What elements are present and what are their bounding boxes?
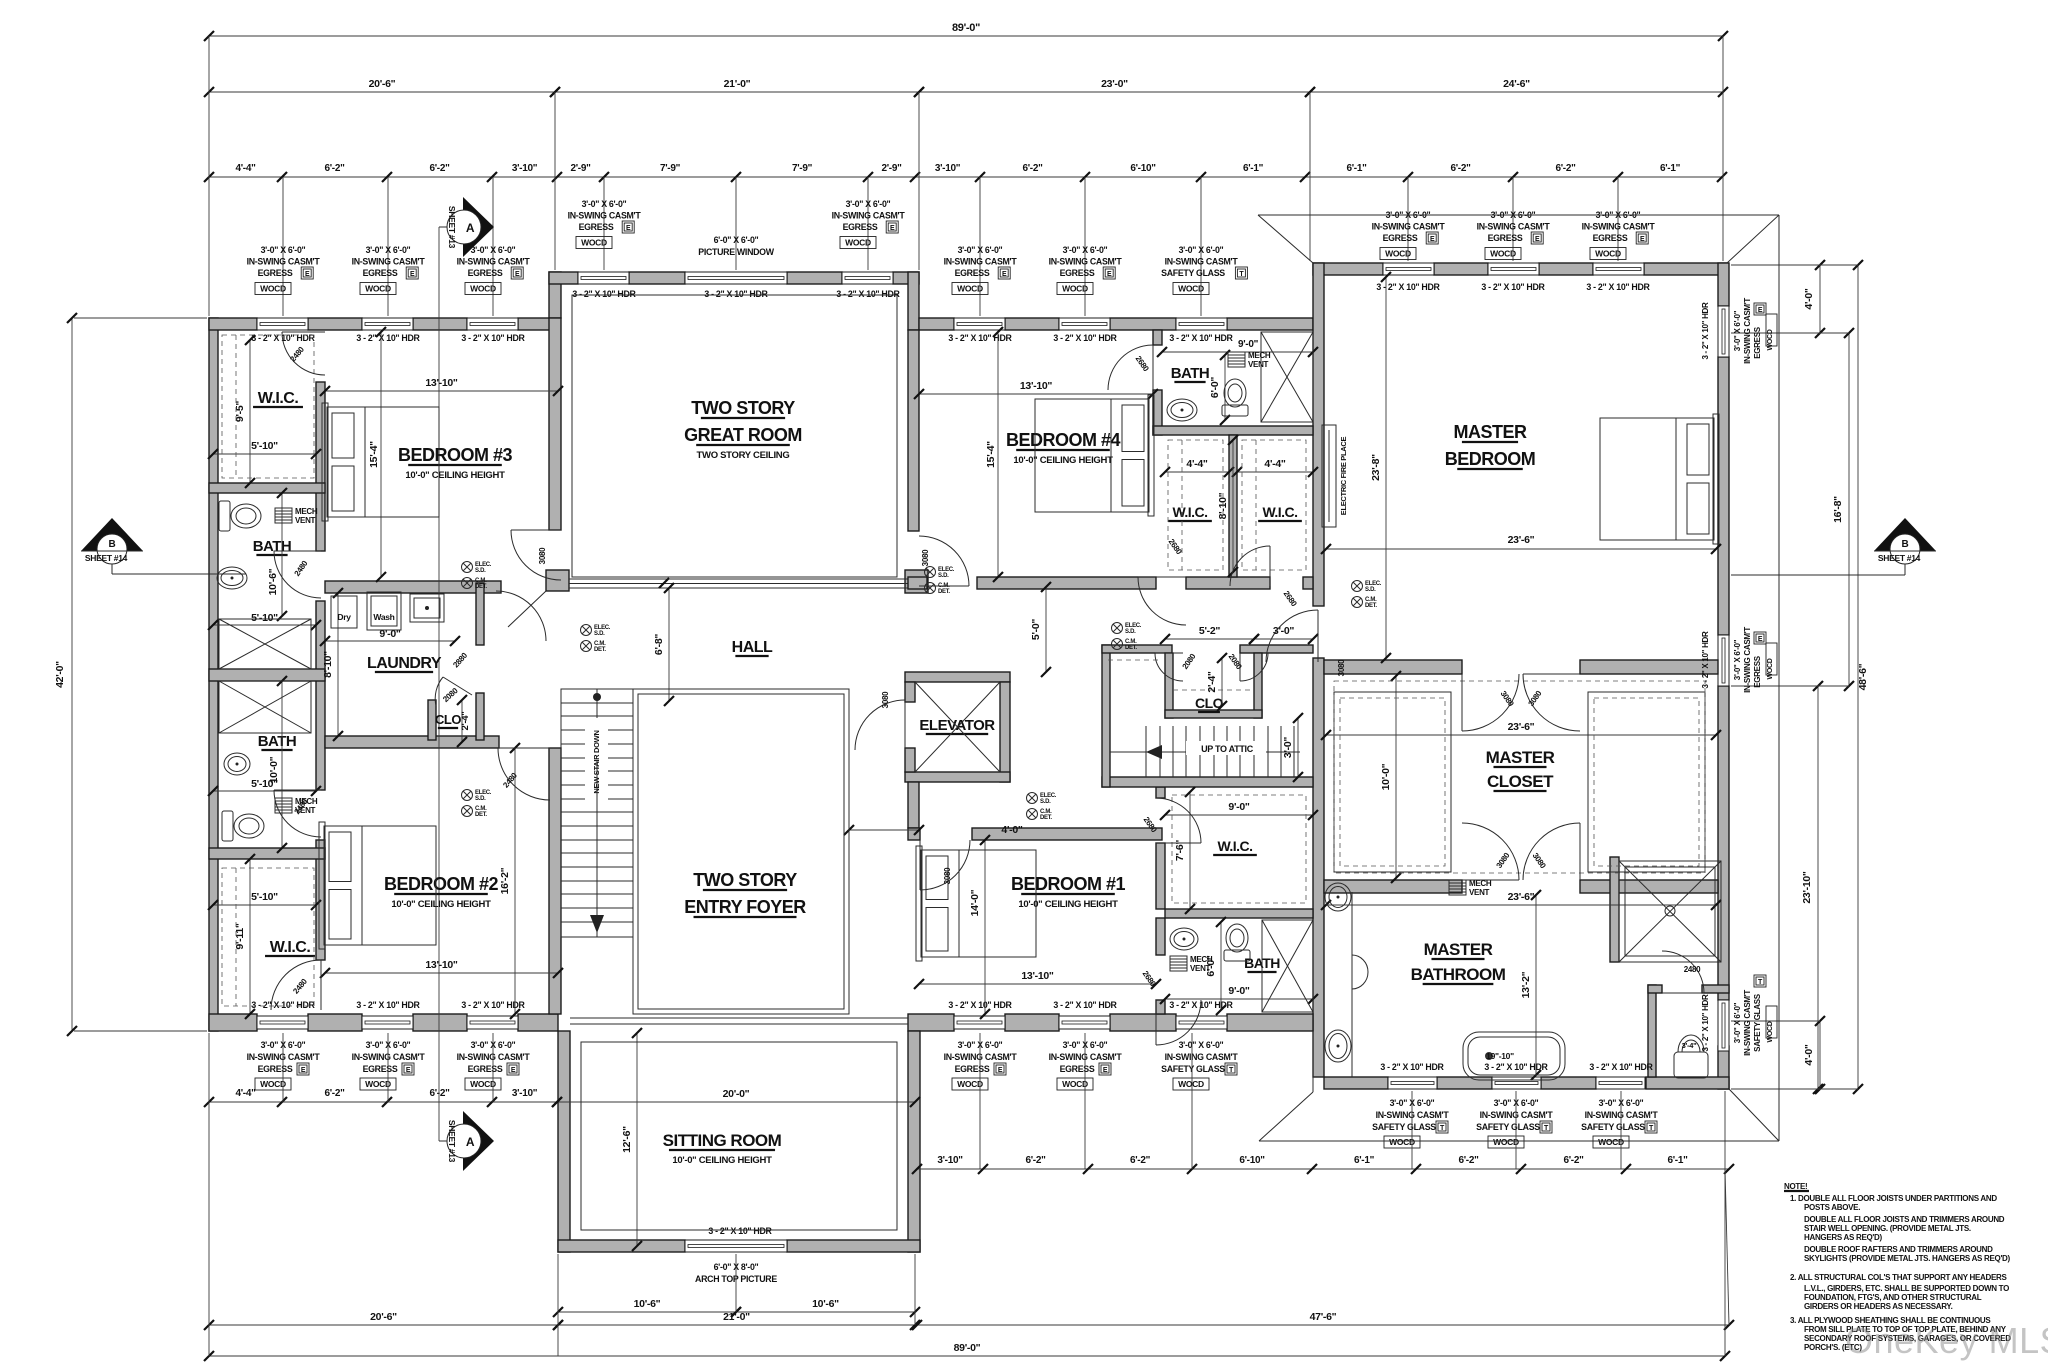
svg-text:EGRESS: EGRESS (1593, 233, 1628, 243)
dim right 23'-10 (1817, 686, 1819, 1089)
toilet bedroom1 bath (1224, 950, 1250, 961)
svg-text:47'-6": 47'-6" (1310, 1311, 1337, 1323)
extension lines bottom (282, 1033, 284, 1102)
svg-text:DET.: DET. (938, 589, 950, 595)
svg-text:SAFETY GLASS: SAFETY GLASS (1161, 1064, 1225, 1074)
closet shelving WIC1 dashed (222, 335, 314, 478)
svg-text:IN-SWING CASM'T: IN-SWING CASM'T (1477, 222, 1551, 232)
wall between bathrooms showers (209, 669, 325, 681)
svg-text:WOCD: WOCD (260, 284, 286, 294)
closet shelving bedroom1 WIC dashed (1172, 795, 1306, 903)
dim bath2 10'-0 (281, 681, 283, 848)
svg-text:3'-0" X 6'-0": 3'-0" X 6'-0" (1733, 639, 1742, 680)
mech vent bedroom1 bath (1170, 956, 1187, 971)
svg-text:6'-1": 6'-1" (1354, 1155, 1375, 1166)
svg-text:3080: 3080 (1337, 659, 1346, 676)
svg-text:IN-SWING CASM'T: IN-SWING CASM'T (1165, 1052, 1239, 1062)
svg-text:MASTER: MASTER (1486, 748, 1555, 767)
svg-text:NOTE!: NOTE! (1784, 1182, 1807, 1191)
door bedroom4 WIC right 2680 (1230, 546, 1270, 586)
svg-text:23'-0": 23'-0" (1101, 78, 1128, 90)
svg-text:3'-0" X 6'-0": 3'-0" X 6'-0" (366, 245, 411, 255)
svg-text:OneKey MLS: OneKey MLS (1845, 1320, 2048, 1361)
svg-text:16'-8": 16'-8" (1832, 496, 1844, 523)
mech vent master bath (1449, 880, 1466, 895)
svg-text:20'-0": 20'-0" (723, 1088, 750, 1100)
svg-text:SAFETY GLASS: SAFETY GLASS (1372, 1122, 1436, 1132)
svg-text:6'-10": 6'-10" (1130, 163, 1156, 174)
door bedroom1 WIC 2680 (1156, 798, 1201, 843)
svg-text:5'-10": 5'-10" (251, 612, 278, 624)
svg-text:19"-10": 19"-10" (1486, 1051, 1514, 1061)
svg-text:15'-4": 15'-4" (985, 441, 997, 468)
svg-text:2'-9": 2'-9" (570, 163, 591, 174)
svg-text:3 - 2" X 10" HDR: 3 - 2" X 10" HDR (1484, 1062, 1548, 1072)
dim master bedroom 23'-6 (1326, 548, 1716, 550)
svg-text:SITTING ROOM: SITTING ROOM (663, 1131, 782, 1150)
svg-text:3 - 2" X 10" HDR: 3 - 2" X 10" HDR (572, 289, 636, 299)
wall below bath2 (209, 848, 325, 859)
svg-text:3'-0" X 6'-0": 3'-0" X 6'-0" (1179, 1040, 1224, 1050)
master shower (1619, 861, 1721, 962)
svg-text:VENT: VENT (295, 516, 316, 525)
svg-text:6'-1": 6'-1" (1660, 163, 1681, 174)
stairs up to attic (1145, 726, 1147, 777)
svg-text:10'-0" CEILING HEIGHT: 10'-0" CEILING HEIGHT (672, 1155, 772, 1166)
svg-text:3'-0" X 6'-0": 3'-0" X 6'-0" (1179, 245, 1224, 255)
svg-text:B: B (1902, 539, 1909, 550)
extension lines top windows (282, 177, 284, 316)
bed bedroom4 (1035, 399, 1149, 512)
svg-text:9'-0": 9'-0" (1228, 985, 1249, 997)
door bedroom4 bath 2680 (1108, 345, 1153, 390)
svg-text:DET.: DET. (475, 584, 487, 590)
door bath1 2480 (274, 551, 321, 598)
svg-text:EGRESS: EGRESS (468, 268, 503, 278)
door CLO laundry 2080 (443, 677, 472, 695)
svg-text:3'-0" X 6'-0": 3'-0" X 6'-0" (1063, 245, 1108, 255)
svg-text:6'-2": 6'-2" (429, 1088, 450, 1099)
svg-text:HALL: HALL (732, 639, 773, 656)
svg-text:WOCD: WOCD (1178, 1079, 1204, 1089)
svg-text:5'-10": 5'-10" (251, 440, 278, 452)
svg-text:WOCD: WOCD (1062, 1079, 1088, 1089)
svg-text:EGRESS: EGRESS (1488, 233, 1523, 243)
dim b1 WIC 9'-0 (1165, 814, 1313, 816)
dim attic 3'-0 (1297, 718, 1299, 777)
svg-text:EGRESS: EGRESS (258, 1064, 293, 1074)
door bedroom4 WIC left 2680 (1138, 577, 1186, 625)
svg-text:WOCD: WOCD (1389, 1137, 1415, 1147)
dim left 42'-0 (71, 318, 73, 1031)
svg-text:DET.: DET. (1040, 815, 1052, 821)
closet shelving bedroom4 WICs dashed (1168, 440, 1223, 570)
svg-text:13'-10": 13'-10" (1020, 380, 1053, 392)
svg-text:TWO STORY: TWO STORY (691, 398, 795, 418)
wall master left (1313, 263, 1324, 606)
wall bedroom1 east WIC west (1156, 787, 1165, 798)
svg-text:CLO: CLO (435, 712, 461, 727)
svg-text:IN-SWING CASM'T: IN-SWING CASM'T (1049, 257, 1123, 267)
svg-text:E: E (1758, 636, 1763, 643)
svg-text:SAFETY GLASS: SAFETY GLASS (1753, 993, 1762, 1052)
section line A-A (438, 227, 440, 1141)
dim bedroom1 13'-10 (919, 983, 1156, 985)
svg-text:3 - 2" X 10" HDR: 3 - 2" X 10" HDR (948, 333, 1012, 343)
door master closet south double 3080 (1462, 823, 1519, 880)
sink bedroom1 bath (1170, 928, 1198, 950)
svg-text:23'-10": 23'-10" (1801, 871, 1813, 904)
svg-text:WOCD: WOCD (1767, 329, 1774, 350)
svg-text:W.I.C.: W.I.C. (1172, 504, 1207, 520)
sink bath2 (224, 753, 250, 775)
svg-text:15'-4": 15'-4" (368, 441, 380, 468)
svg-text:3 - 2" X 10" HDR: 3 - 2" X 10" HDR (1053, 333, 1117, 343)
svg-text:10'-0" CEILING HEIGHT: 10'-0" CEILING HEIGHT (1013, 455, 1113, 466)
svg-text:TWO STORY CEILING: TWO STORY CEILING (697, 450, 790, 461)
door bedroom1 bath 2680 (1156, 1000, 1201, 1045)
dim top 89'-0 (209, 35, 1723, 37)
svg-text:10'-6": 10'-6" (634, 1298, 661, 1310)
smoke detector bedroom2 (462, 790, 473, 801)
svg-text:DET.: DET. (1125, 645, 1137, 651)
closet hall CLO dashed (1173, 689, 1254, 691)
smoke detector hall attic (1112, 623, 1123, 634)
svg-text:E: E (1107, 271, 1112, 278)
svg-text:S.D.: S.D. (1040, 799, 1051, 805)
closet shelving WIC2 dashed (222, 868, 314, 1006)
svg-text:GREAT ROOM: GREAT ROOM (684, 425, 802, 445)
smoke detector master bedroom (1352, 581, 1363, 592)
door master closet north double 3080 (1462, 674, 1519, 731)
svg-text:3 - 2" X 10" HDR: 3 - 2" X 10" HDR (1481, 282, 1545, 292)
svg-text:WOCD: WOCD (470, 284, 496, 294)
dim b1 WIC 7'-6 (1189, 792, 1191, 909)
dim clo 2'-4 (1221, 658, 1223, 706)
mech vent bath2 (275, 798, 292, 813)
toilet bath1 (219, 501, 230, 531)
svg-text:SHEET #14: SHEET #14 (85, 553, 128, 563)
svg-text:24'-6": 24'-6" (1503, 78, 1530, 90)
svg-text:E: E (511, 1067, 516, 1074)
shower bedroom1 bath (1262, 920, 1313, 1012)
open to below entry foyer outline (633, 689, 849, 1014)
svg-text:2'-4": 2'-4" (1206, 671, 1218, 692)
svg-text:4'-0": 4'-0" (1803, 288, 1815, 309)
svg-text:E: E (410, 271, 415, 278)
wall sitting room left (558, 1031, 570, 1252)
svg-text:3'-0" X 6'-0": 3'-0" X 6'-0" (261, 245, 306, 255)
svg-text:SKYLIGHTS (PROVIDE METAL JTS.: SKYLIGHTS (PROVIDE METAL JTS. HANGERS AS… (1804, 1254, 2011, 1263)
svg-text:S.D.: S.D. (594, 631, 605, 637)
svg-text:IN-SWING CASM'T: IN-SWING CASM'T (352, 257, 426, 267)
svg-text:16'-2": 16'-2" (499, 867, 511, 894)
svg-text:3 - 2" X 10" HDR: 3 - 2" X 10" HDR (356, 1000, 420, 1010)
door bedroom2 2480 (498, 748, 550, 800)
svg-text:WOCD: WOCD (1062, 284, 1088, 294)
svg-text:10'-0" CEILING HEIGHT: 10'-0" CEILING HEIGHT (1018, 899, 1118, 910)
svg-text:S.D.: S.D. (1365, 587, 1376, 593)
svg-text:14'-0": 14'-0" (969, 889, 981, 916)
dim bottom 89'-0 (209, 1355, 1725, 1357)
inner trim great room (572, 295, 897, 577)
svg-text:9'-0": 9'-0" (1238, 339, 1259, 350)
dim shower 5'-10 (213, 624, 316, 626)
dim laundry 8'-10 (337, 593, 339, 736)
svg-text:6'-1": 6'-1" (1667, 1155, 1688, 1166)
svg-text:23'-6": 23'-6" (1508, 721, 1535, 733)
dim sitting room bottom 10'-6 10'-6 (558, 1311, 736, 1313)
svg-text:20'-6": 20'-6" (369, 78, 396, 90)
fireplace master (1322, 425, 1336, 527)
svg-text:UP TO ATTIC: UP TO ATTIC (1201, 744, 1254, 754)
dim WIC2 9'-11 (249, 859, 251, 1014)
smoke detector great room (925, 567, 936, 578)
svg-text:WOCD: WOCD (1595, 249, 1621, 259)
svg-text:2'-4": 2'-4" (460, 712, 471, 731)
svg-text:BEDROOM #1: BEDROOM #1 (1011, 874, 1126, 894)
open edge great room to hall with pillars (546, 570, 569, 591)
svg-text:7'-9": 7'-9" (792, 163, 813, 174)
svg-text:IN-SWING CASM'T: IN-SWING CASM'T (1743, 627, 1752, 693)
svg-text:E: E (1430, 236, 1435, 243)
svg-text:IN-SWING CASM'T: IN-SWING CASM'T (247, 257, 321, 267)
svg-text:6'-2": 6'-2" (1022, 163, 1043, 174)
svg-text:2. ALL STRUCTURAL COL'S THAT: 2. ALL STRUCTURAL COL'S THAT SUPPORT ANY… (1790, 1273, 2008, 1282)
svg-text:6'-2": 6'-2" (1130, 1155, 1151, 1166)
svg-text:3'-10": 3'-10" (512, 1088, 538, 1099)
dim bath2 5'-10 (213, 790, 316, 792)
section marker B right (1874, 518, 1936, 551)
dim bottom-left chain (209, 1101, 557, 1103)
wall attic stair west (1102, 645, 1110, 787)
svg-text:A: A (466, 1135, 475, 1149)
dim right 16'-8 (1848, 333, 1850, 686)
section marker A top (463, 197, 494, 257)
svg-text:W.I.C.: W.I.C. (270, 939, 311, 956)
svg-text:IN-SWING CASM'T: IN-SWING CASM'T (1372, 222, 1446, 232)
svg-text:4'-4": 4'-4" (1264, 458, 1285, 470)
dim bedroom4 13'-10 (919, 393, 1153, 395)
svg-text:IN-SWING CASM'T: IN-SWING CASM'T (944, 257, 1018, 267)
dim top second chain (209, 91, 555, 93)
svg-text:VENT: VENT (1190, 964, 1211, 973)
svg-text:DET.: DET. (1365, 603, 1377, 609)
wall exterior bottom-left with windows (209, 1014, 257, 1031)
svg-text:A: A (466, 221, 475, 235)
wall exterior bedroom4 top with windows (908, 272, 919, 330)
svg-text:3080: 3080 (538, 547, 547, 564)
svg-text:S.D.: S.D. (475, 796, 486, 802)
svg-text:3'-0" X 6'-0": 3'-0" X 6'-0" (958, 245, 1003, 255)
svg-text:WOCD: WOCD (1767, 658, 1774, 679)
wall left closets column east (316, 382, 325, 551)
svg-text:6'-1": 6'-1" (1243, 163, 1264, 174)
svg-text:2480: 2480 (1684, 965, 1701, 974)
svg-text:9'-0": 9'-0" (1228, 801, 1249, 813)
svg-text:23'-6": 23'-6" (1508, 534, 1535, 546)
svg-text:13'-2": 13'-2" (1520, 971, 1532, 998)
svg-text:6'-2": 6'-2" (324, 1088, 345, 1099)
svg-text:S.D.: S.D. (1125, 629, 1136, 635)
svg-text:FOUNDATION, FTG'S, AND OTHER S: FOUNDATION, FTG'S, AND OTHER STRUCTURAL (1804, 1293, 1982, 1302)
svg-text:ELECTRIC FIRE PLACE: ELECTRIC FIRE PLACE (1339, 436, 1348, 515)
wall bedroom4 WICs south (1186, 577, 1270, 589)
svg-text:IN-SWING CASM'T: IN-SWING CASM'T (1585, 1110, 1659, 1120)
svg-text:3 - 2" X 10" HDR: 3 - 2" X 10" HDR (948, 1000, 1012, 1010)
svg-text:IN-SWING CASM'T: IN-SWING CASM'T (1480, 1110, 1554, 1120)
dim sitting room 20'-0 (557, 1101, 915, 1103)
svg-text:GIRDERS OR HEADERS AS NECESSAR: GIRDERS OR HEADERS AS NECESSARY. (1804, 1302, 1953, 1311)
dim CLO 2'-4 (461, 700, 463, 742)
svg-text:W.I.C.: W.I.C. (258, 390, 299, 407)
svg-text:3'-0" X 6'-0": 3'-0" X 6'-0" (471, 245, 516, 255)
svg-text:13'-10": 13'-10" (425, 377, 458, 389)
wall laundry south bedroom2 north (325, 736, 499, 748)
svg-text:10'-0" CEILING HEIGHT: 10'-0" CEILING HEIGHT (391, 899, 491, 910)
wall master shower stub (1610, 857, 1619, 962)
svg-text:3 - 2" X 10" HDR: 3 - 2" X 10" HDR (836, 289, 900, 299)
svg-text:CLOSET: CLOSET (1487, 772, 1554, 791)
wall attic stair south (1102, 777, 1313, 787)
svg-text:S.D.: S.D. (938, 573, 949, 579)
svg-text:1. DOUBLE ALL FLOOR JOISTS UN: 1. DOUBLE ALL FLOOR JOISTS UNDER PARTITI… (1790, 1194, 1997, 1203)
svg-text:3'-10": 3'-10" (935, 163, 961, 174)
svg-text:3 - 2" X 10" HDR: 3 - 2" X 10" HDR (1701, 631, 1710, 689)
svg-text:EGRESS: EGRESS (955, 268, 990, 278)
door hall CLO double 2080 (1155, 653, 1183, 681)
stairs entry foyer (561, 689, 633, 937)
svg-text:3'-10": 3'-10" (512, 163, 538, 174)
dim bath1 10'-6 (281, 493, 283, 616)
dim right 48'-6 (1857, 265, 1859, 1089)
svg-text:WOCD: WOCD (470, 1079, 496, 1089)
wall exterior bottom bedroom1 with windows (908, 1014, 954, 1031)
svg-text:IN-SWING CASM'T: IN-SWING CASM'T (247, 1052, 321, 1062)
svg-text:48'-6": 48'-6" (1857, 663, 1869, 690)
wall bedroom4 WIC divider (1229, 435, 1237, 577)
svg-text:6'-8": 6'-8" (653, 634, 665, 655)
svg-text:EGRESS: EGRESS (1753, 326, 1762, 359)
svg-text:PICTURE WINDOW: PICTURE WINDOW (698, 247, 774, 257)
svg-text:IN-SWING CASM'T: IN-SWING CASM'T (352, 1052, 426, 1062)
svg-text:WOCD: WOCD (365, 1079, 391, 1089)
dim top third chain (209, 176, 1722, 178)
svg-text:IN-SWING CASM'T: IN-SWING CASM'T (568, 211, 642, 221)
section marker A bottom (463, 1111, 494, 1171)
inner trim sitting room (581, 1042, 897, 1230)
svg-text:E: E (301, 1067, 306, 1074)
svg-text:MASTER: MASTER (1424, 940, 1493, 959)
dim bedroom4 bath 6'-0 (1224, 355, 1226, 420)
shower bath1 (219, 619, 311, 669)
svg-text:5'-10": 5'-10" (251, 778, 278, 790)
svg-text:3 - 2" X 10" HDR: 3 - 2" X 10" HDR (1586, 282, 1650, 292)
svg-text:5'-10": 5'-10" (251, 891, 278, 903)
svg-text:WOCD: WOCD (1490, 249, 1516, 259)
svg-text:WOCD: WOCD (581, 238, 607, 248)
svg-text:SAFETY GLASS: SAFETY GLASS (1581, 1122, 1645, 1132)
dim master bath 23'-6 (1326, 904, 1716, 906)
svg-text:BATHROOM: BATHROOM (1411, 965, 1506, 984)
svg-text:Wash: Wash (373, 612, 394, 622)
svg-text:23'-6": 23'-6" (1508, 891, 1535, 903)
dim master closet 23'-6 (1326, 734, 1716, 736)
svg-text:3080: 3080 (921, 549, 930, 566)
svg-text:ENTRY FOYER: ENTRY FOYER (684, 897, 806, 917)
smoke detector hall (581, 625, 592, 636)
svg-text:EGRESS: EGRESS (955, 1064, 990, 1074)
svg-text:7'-9": 7'-9" (660, 163, 681, 174)
svg-text:IN-SWING CASM'T: IN-SWING CASM'T (944, 1052, 1018, 1062)
svg-text:3'-0" X 6'-0": 3'-0" X 6'-0" (1733, 1002, 1742, 1043)
wall sitting room right (908, 1031, 920, 1252)
wall bedroom4 bath south (1153, 426, 1313, 435)
door bedroom4 3080 (919, 536, 969, 586)
door master bedroom 3080 (1266, 610, 1318, 662)
svg-text:IN-SWING CASM'T: IN-SWING CASM'T (1376, 1110, 1450, 1120)
mech vent bath1 (275, 508, 292, 523)
svg-text:6'-0": 6'-0" (1209, 377, 1221, 398)
wall exterior master bottom with windows (1324, 1077, 1388, 1089)
svg-text:EGRESS: EGRESS (1060, 1064, 1095, 1074)
svg-text:3'-0" X 6'-0": 3'-0" X 6'-0" (846, 199, 891, 209)
master bath vanity with sinks (1351, 892, 1353, 1077)
svg-text:E: E (406, 1067, 411, 1074)
svg-text:TWO STORY: TWO STORY (693, 870, 797, 890)
svg-text:6'-2": 6'-2" (1458, 1155, 1479, 1166)
svg-text:IN-SWING CASM'T: IN-SWING CASM'T (1165, 257, 1239, 267)
dim bottom 20'-6 21'-0 47'-6 (209, 1324, 558, 1326)
svg-text:3 - 2" X 10" HDR: 3 - 2" X 10" HDR (708, 1226, 772, 1236)
dim master bath 13'-2 (1535, 895, 1537, 1075)
svg-text:42'-0": 42'-0" (54, 661, 66, 688)
svg-text:3 - 2" X 10" HDR: 3 - 2" X 10" HDR (1589, 1062, 1653, 1072)
sink bedroom4 bath (1167, 399, 1197, 421)
svg-text:WOCD: WOCD (1767, 1021, 1774, 1042)
wall corridor north at CLO (1102, 645, 1172, 653)
wall master closet south with double door (1324, 880, 1462, 893)
svg-text:3'-0" X 6'-0": 3'-0" X 6'-0" (582, 199, 627, 209)
svg-text:3 - 2" X 10" HDR: 3 - 2" X 10" HDR (1380, 1062, 1444, 1072)
svg-text:WOCD: WOCD (1385, 249, 1411, 259)
dim bedroom3 15'-4 (380, 332, 382, 577)
svg-text:WOCD: WOCD (1493, 1137, 1519, 1147)
master bath tub (1463, 1032, 1565, 1080)
svg-text:3 - 2" X 10" HDR: 3 - 2" X 10" HDR (1701, 994, 1710, 1052)
svg-text:VENT: VENT (1469, 888, 1490, 897)
wall exterior master right with windows (1718, 263, 1729, 306)
svg-text:12'-6": 12'-6" (621, 1126, 633, 1153)
wall bedroom4 bath west (1153, 330, 1162, 345)
dim hall clo 5'-2 3'-0 (1165, 638, 1254, 640)
svg-text:21'-0": 21'-0" (724, 78, 751, 90)
wall hall CLO closet (1165, 653, 1173, 718)
shower bedroom4 bath (1261, 332, 1313, 422)
svg-text:ELEVATOR: ELEVATOR (919, 717, 995, 734)
svg-text:BATH: BATH (253, 538, 292, 555)
svg-text:E: E (1103, 1067, 1108, 1074)
svg-text:IN-SWING CASM'T: IN-SWING CASM'T (457, 257, 531, 267)
dim WIC1 9'-5 (249, 340, 251, 483)
door bedroom3 3080 (511, 530, 561, 580)
svg-text:4'-4": 4'-4" (235, 1088, 256, 1099)
svg-text:3080: 3080 (943, 867, 952, 884)
door WIC1 2480 (282, 332, 325, 375)
dim WICs 8'-10 (1232, 440, 1234, 572)
svg-text:89'-0": 89'-0" (954, 1342, 981, 1354)
dim bedroom1 14'-0 (984, 840, 986, 1014)
